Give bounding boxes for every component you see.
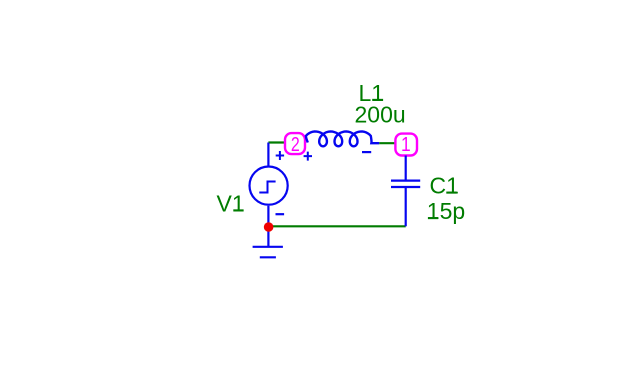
L1 plus mark <box>304 152 312 161</box>
svg-text:C1: C1 <box>430 173 459 199</box>
V1 minus mark <box>276 213 285 215</box>
svg-text:15p: 15p <box>427 198 465 224</box>
ground <box>253 247 283 257</box>
svg-text:2: 2 <box>291 132 300 155</box>
wire node2 to V1 corner <box>268 141 285 143</box>
junction dot <box>264 222 274 232</box>
node 1 <box>395 134 417 157</box>
wire L1 to node1 <box>379 142 395 144</box>
svg-text:200u: 200u <box>355 101 406 127</box>
L1 minus mark <box>362 151 371 153</box>
V1 plus mark <box>276 151 284 160</box>
inductor L1 <box>306 132 379 147</box>
capacitor C1 <box>391 156 420 227</box>
node 2 <box>285 132 305 155</box>
voltage source V1 <box>250 143 288 247</box>
bottom wire node0 <box>269 225 406 227</box>
svg-text:1: 1 <box>401 134 411 157</box>
svg-text:V1: V1 <box>217 191 245 217</box>
